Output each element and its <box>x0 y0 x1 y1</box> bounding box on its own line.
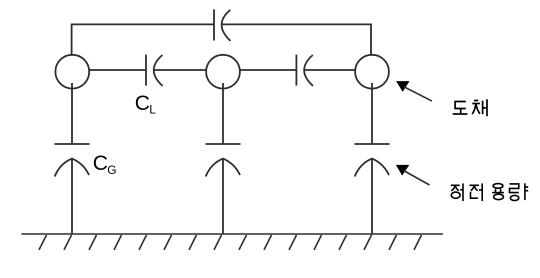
svg-text:G: G <box>107 163 116 177</box>
svg-text:L: L <box>149 102 156 116</box>
svg-text:C: C <box>135 92 150 115</box>
svg-text:C: C <box>93 152 108 175</box>
